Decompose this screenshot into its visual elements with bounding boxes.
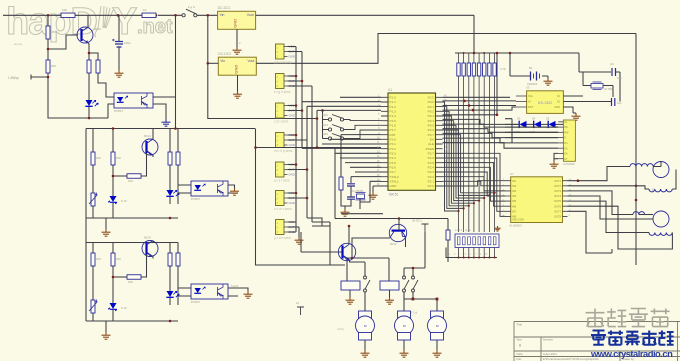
junction c xyxy=(468,104,471,107)
motor M5 xyxy=(428,311,447,340)
capacitor C4 xyxy=(612,68,616,76)
svg-text:PSEN: PSEN xyxy=(426,147,434,151)
wire bus to P3 xyxy=(302,147,381,149)
junction xyxy=(207,62,210,65)
bus conn VCC xyxy=(288,47,297,233)
IC U1 MCU 89C51 xyxy=(388,93,436,190)
wire OUT2 xyxy=(568,186,650,189)
svg-text:P3.4: P3.4 xyxy=(390,156,397,160)
rheostat Rb2 xyxy=(89,300,97,313)
svg-text:GND: GND xyxy=(233,65,238,74)
transistor Q4 xyxy=(389,224,406,241)
svg-text:9014: 9014 xyxy=(144,236,151,240)
resistor R2 xyxy=(142,13,156,17)
svg-text:q r s t sens: q r s t sens xyxy=(274,179,290,183)
resistor pack elements xyxy=(457,237,496,245)
resistor Ra4 xyxy=(127,174,141,179)
stepper M2 winding D xyxy=(649,233,672,236)
svg-text:U5: U5 xyxy=(526,86,530,90)
ground K1 xyxy=(346,297,355,304)
junction xyxy=(473,52,476,55)
svg-text:5.1V: 5.1V xyxy=(121,199,127,203)
svg-text:P1.7: P1.7 xyxy=(390,128,397,132)
svg-text:D3: D3 xyxy=(517,117,521,121)
svg-text:www.crystalradio.cn: www.crystalradio.cn xyxy=(590,348,673,359)
IC U6 LCD interface xyxy=(563,120,575,161)
junction xyxy=(88,117,91,120)
svg-text:P2.6: P2.6 xyxy=(428,156,435,160)
motor M4 xyxy=(395,311,414,340)
wire reg2 in xyxy=(208,62,219,64)
wire motor M3 xyxy=(364,340,366,350)
svg-text:IN7: IN7 xyxy=(512,209,517,213)
wires U6 gnd xyxy=(554,153,558,161)
zener Db1 xyxy=(108,303,117,311)
svg-text:k g S: k g S xyxy=(188,5,195,9)
svg-text:GND: GND xyxy=(289,55,295,59)
wire block link left xyxy=(85,218,87,243)
regulator DC-DC1 xyxy=(218,6,256,29)
switch K2 contact b xyxy=(412,276,419,292)
wire Qb xyxy=(141,241,153,278)
resistor R6 xyxy=(96,60,100,73)
wire P3 pin17 xyxy=(355,171,381,173)
svg-text:B1: B1 xyxy=(529,66,533,70)
svg-text:P0.2: P0.2 xyxy=(428,110,435,114)
svg-text:P3.0: P3.0 xyxy=(390,138,397,142)
wire GND pin xyxy=(373,186,381,192)
junction xyxy=(295,192,298,195)
title block text xyxy=(517,323,635,361)
wire OUT7 xyxy=(568,211,613,253)
wire relay feed xyxy=(347,258,389,281)
wire reg1 out xyxy=(256,14,474,16)
resistor Rb1 xyxy=(91,253,95,266)
svg-text:RS: RS xyxy=(564,126,568,129)
junction xyxy=(306,197,309,200)
svg-text:IN6: IN6 xyxy=(512,204,517,208)
junction e xyxy=(496,114,499,117)
svg-text:IN5: IN5 xyxy=(512,199,517,203)
svg-text:1.5Wsp: 1.5Wsp xyxy=(8,76,19,80)
svg-text:SW4: SW4 xyxy=(322,132,328,136)
svg-text:10p: 10p xyxy=(617,76,622,80)
svg-text:P3.1: P3.1 xyxy=(390,142,397,146)
svg-text:IN3: IN3 xyxy=(512,189,517,193)
svg-text:i j k l sens: i j k l sens xyxy=(274,120,288,124)
ground crystal xyxy=(341,209,350,216)
ground battery xyxy=(544,78,553,85)
wire caps xyxy=(341,186,351,209)
svg-text:Kout1: Kout1 xyxy=(231,284,239,288)
svg-text:P2.0: P2.0 xyxy=(428,184,435,188)
svg-text:Vin: Vin xyxy=(220,13,225,17)
resistor R8 xyxy=(446,230,450,240)
svg-text:OUT2: OUT2 xyxy=(554,184,561,188)
svg-text:GND: GND xyxy=(390,184,398,188)
power port JK-DC1 xyxy=(412,219,429,233)
svg-text:U7: U7 xyxy=(510,172,514,176)
wires U6 left xyxy=(505,119,558,149)
wire P1.3 xyxy=(317,109,381,111)
svg-text:RST: RST xyxy=(390,133,396,137)
ground K2 xyxy=(385,297,394,304)
svg-text:P1.3: P1.3 xyxy=(390,110,397,114)
svg-text:GND: GND xyxy=(233,19,238,28)
svg-text:a b c d e f g dp: a b c d e f g dp xyxy=(455,229,471,232)
junction xyxy=(169,217,172,220)
svg-text:U1: U1 xyxy=(388,88,392,92)
junction xyxy=(301,80,304,83)
wire relay K2 gnd xyxy=(389,290,391,297)
wire cap C1 xyxy=(118,15,120,70)
capacitor C3 xyxy=(347,197,355,199)
wire P1.0 xyxy=(340,96,381,98)
junction xyxy=(295,134,298,137)
junction xyxy=(316,146,319,149)
junction xyxy=(47,76,50,79)
wire long 265 xyxy=(256,264,346,266)
connector J6 xyxy=(276,191,295,206)
svg-text:DS-1302: DS-1302 xyxy=(538,101,552,105)
svg-text:PC817: PC817 xyxy=(191,300,201,304)
ground motor M4 xyxy=(400,350,409,357)
wire reg2 gnd xyxy=(237,75,239,91)
wire switch SW3 xyxy=(323,125,382,129)
svg-text:Number: Number xyxy=(543,338,553,342)
svg-text:P2.4: P2.4 xyxy=(428,166,435,170)
ground reg2 xyxy=(233,91,242,98)
junction xyxy=(47,14,50,17)
svg-text:P2.2: P2.2 xyxy=(428,175,435,179)
svg-text:P0.7: P0.7 xyxy=(428,133,435,137)
rail unswitched xyxy=(86,15,256,128)
wire motor2 feed xyxy=(404,292,414,299)
resistor Rb5 xyxy=(168,253,172,266)
bus conn sig1 xyxy=(288,52,303,149)
resistor network RP1 xyxy=(457,63,460,76)
junction xyxy=(483,52,485,54)
wire MCU to U5 d xyxy=(443,107,517,110)
svg-text:Size: Size xyxy=(517,338,523,342)
svg-text:GND: GND xyxy=(554,105,560,109)
watermark kuangshi xyxy=(591,331,674,346)
stepper M1 xyxy=(653,162,669,178)
junctions P0 columns xyxy=(457,192,495,212)
svg-text:OUT6: OUT6 xyxy=(554,204,561,208)
wires U5 right xyxy=(563,96,611,113)
diode D5 xyxy=(548,121,555,128)
connector J2 xyxy=(276,74,295,89)
connector J3 xyxy=(276,103,295,118)
stepper M2 xyxy=(653,211,669,227)
svg-text:OUT4: OUT4 xyxy=(554,194,561,198)
svg-text:GND: GND xyxy=(289,114,295,118)
connector J1 xyxy=(276,44,295,59)
watermark shuma outline xyxy=(586,309,670,327)
connector J7 xyxy=(276,220,295,235)
bus conn sig2 xyxy=(288,140,308,218)
wire mesh row6 xyxy=(443,143,513,149)
junction bus xyxy=(635,185,638,188)
junction xyxy=(169,320,172,323)
switch rail xyxy=(322,110,324,138)
svg-text:P1.5: P1.5 xyxy=(390,119,397,123)
junction xyxy=(351,257,354,260)
resistor Rb4 xyxy=(127,275,141,280)
junction sq a xyxy=(412,298,415,301)
wires P2 to U7 xyxy=(443,153,506,216)
junction xyxy=(348,225,351,228)
junction sq b xyxy=(436,298,439,301)
wire motor3 feed xyxy=(413,292,437,311)
wire reg1 gnd xyxy=(236,29,238,47)
wire Q5 base xyxy=(301,232,342,252)
wire bus down xyxy=(256,129,346,265)
svg-text:CSdj: CSdj xyxy=(337,327,344,331)
wire conn row right xyxy=(307,110,330,226)
junction xyxy=(295,75,298,78)
junction xyxy=(509,52,512,55)
relay K1 xyxy=(341,281,360,290)
wire P1.2 xyxy=(307,106,381,140)
wire blocka mid xyxy=(112,129,114,219)
IC U6 pins xyxy=(558,121,569,161)
wire power dist xyxy=(404,232,425,276)
junction OUT1 xyxy=(577,179,580,182)
ground opto U2 xyxy=(162,119,171,126)
wire mesh row3 xyxy=(443,129,559,133)
junction xyxy=(112,175,115,178)
svg-text:IN1: IN1 xyxy=(512,179,517,183)
junction xyxy=(155,14,158,17)
labels U5 pins xyxy=(528,94,561,109)
wire power line xyxy=(335,148,448,218)
junction xyxy=(463,52,465,54)
stepper M2 winding C xyxy=(633,212,645,215)
watermark hapDIY.net xyxy=(6,1,173,43)
svg-text:GND: GND xyxy=(289,173,295,177)
svg-text:hapD: hapD xyxy=(6,1,97,43)
wire Ra4 xyxy=(113,175,127,177)
connector J4 xyxy=(276,133,295,148)
wire OUT4 xyxy=(568,196,654,219)
wire MCU to U5 b2 xyxy=(0,0,1,1)
junction xyxy=(88,52,91,55)
wire blockb left xyxy=(92,243,94,322)
svg-text:GND: GND xyxy=(289,201,295,205)
regulator DC-DC2 xyxy=(218,52,256,75)
wire stepper tail xyxy=(0,0,1,1)
svg-text:P0.5: P0.5 xyxy=(428,124,435,128)
svg-text:OUT7: OUT7 xyxy=(554,209,561,213)
wire P3.1 xyxy=(322,143,381,145)
svg-text:P3.6: P3.6 xyxy=(390,166,397,170)
svg-text:9014: 9014 xyxy=(144,134,151,138)
wire xtal1 xyxy=(360,181,381,209)
svg-text:12: 12 xyxy=(296,301,300,305)
wire R8 down xyxy=(447,240,449,262)
optocoupler U4 xyxy=(191,284,228,299)
capacitor C2 xyxy=(347,184,355,186)
svg-text:X2: X2 xyxy=(557,100,561,104)
rheostat Ra2 xyxy=(89,193,97,206)
svg-text:OUT1: OUT1 xyxy=(554,179,561,183)
wire gnd row xyxy=(341,213,383,215)
wire P3 pin15 xyxy=(345,162,381,164)
svg-text:P0.4: P0.4 xyxy=(428,119,435,123)
svg-text:11.0592M: 11.0592M xyxy=(352,189,363,193)
resistor R4 xyxy=(46,60,50,73)
svg-text:20K: 20K xyxy=(51,64,56,68)
svg-text:P3.2: P3.2 xyxy=(390,147,397,151)
svg-text:PC817: PC817 xyxy=(191,197,201,201)
title block frame xyxy=(514,322,680,361)
svg-text:IO: IO xyxy=(528,100,531,104)
ground reg1 xyxy=(233,47,242,54)
wire OUT1 xyxy=(568,167,631,181)
wire motor M4 xyxy=(403,340,405,350)
resistor Ra6 xyxy=(176,152,180,165)
wire bus long xyxy=(256,119,382,148)
wire MCU to U5 c xyxy=(443,105,517,107)
bus conn sig3 xyxy=(288,86,313,222)
svg-text:P0.1: P0.1 xyxy=(428,105,435,109)
wire reg2 out xyxy=(256,34,636,64)
wire OUT6 xyxy=(568,206,673,249)
junction xyxy=(254,146,257,149)
svg-text:10K: 10K xyxy=(116,156,121,160)
svg-text:XTAL2: XTAL2 xyxy=(390,175,400,179)
junction bus xyxy=(635,199,638,202)
svg-text:C4: C4 xyxy=(610,62,614,66)
wire M1 B xyxy=(672,170,676,190)
wire P1.1 xyxy=(302,102,381,149)
ground motor M5 xyxy=(433,350,442,357)
svg-text:LCD1602: LCD1602 xyxy=(563,162,575,166)
power stub xyxy=(297,307,304,315)
wire blocka right xyxy=(170,129,178,205)
wire P3.0 xyxy=(330,138,381,140)
switch SW4 xyxy=(328,134,343,141)
junction b xyxy=(463,100,466,103)
svg-text:10p: 10p xyxy=(617,101,622,105)
resistor pack RP2 xyxy=(455,234,499,248)
wire switch SW2 xyxy=(323,120,382,121)
svg-text:Vout: Vout xyxy=(247,13,254,17)
wire Q4 emitter xyxy=(405,237,407,247)
IC U7 ULN2003 xyxy=(511,177,563,223)
svg-text:OUT5: OUT5 xyxy=(554,199,561,203)
switch K1 contact xyxy=(364,276,371,292)
svg-text:10K: 10K xyxy=(96,156,101,160)
wire 7seg bus xyxy=(446,248,497,258)
svg-text:P3.3: P3.3 xyxy=(390,152,397,156)
switch SW2 xyxy=(328,115,343,122)
svg-text:ALE: ALE xyxy=(428,142,434,146)
svg-text:32.768K: 32.768K xyxy=(604,87,614,91)
LED D1 xyxy=(85,100,98,106)
wire blockb rail xyxy=(86,243,178,322)
svg-text:DC-DC2: DC-DC2 xyxy=(218,52,231,56)
svg-text:10K: 10K xyxy=(96,257,101,261)
wire OUT3 xyxy=(568,191,634,215)
wire RST xyxy=(341,135,381,177)
svg-text:P1.1: P1.1 xyxy=(390,100,397,104)
svg-text:D4: D4 xyxy=(532,117,536,121)
svg-text:P1.4: P1.4 xyxy=(390,114,397,118)
LED Da2 xyxy=(166,190,179,196)
svg-text:P3.7: P3.7 xyxy=(390,170,397,174)
svg-text:e f g h sens: e f g h sens xyxy=(274,90,291,94)
svg-text:4.7K: 4.7K xyxy=(500,67,506,71)
svg-text:Vin: Vin xyxy=(220,59,225,63)
wires 7seg pins xyxy=(458,248,496,259)
wire Q4 collector xyxy=(352,238,390,258)
svg-text:PC817: PC817 xyxy=(114,109,124,113)
wires P0 bus xyxy=(443,102,495,211)
wire mesh row1 xyxy=(443,119,520,124)
wire Q4 base xyxy=(398,219,400,231)
stepper M1 winding A xyxy=(630,164,653,167)
wire mesh row2 xyxy=(443,124,559,127)
battery B1 xyxy=(531,72,540,81)
svg-text:P1.6: P1.6 xyxy=(390,124,397,128)
svg-text:9013: 9013 xyxy=(94,27,101,31)
junction xyxy=(412,267,415,270)
wire blockb bottom xyxy=(86,321,178,332)
capacitor C5 xyxy=(612,98,615,106)
resistor network columns xyxy=(459,53,495,232)
svg-text:P1.0: P1.0 xyxy=(390,96,397,100)
svg-text:P2.5: P2.5 xyxy=(428,161,435,165)
wire switch to reg1 xyxy=(197,14,218,16)
LED Db2 xyxy=(166,291,179,297)
svg-text:4-Apr-2011: 4-Apr-2011 xyxy=(543,352,557,356)
wire OUT5 xyxy=(568,201,650,232)
junction xyxy=(112,127,115,130)
relay K2 xyxy=(380,281,399,290)
wire U5 gnd link xyxy=(573,112,576,114)
svg-text:Y: Y xyxy=(112,1,137,43)
svg-text:a b c d sens: a b c d sens xyxy=(274,61,292,65)
svg-text:XTAL1: XTAL1 xyxy=(390,180,400,184)
junction xyxy=(295,163,298,166)
svg-text:P2.1: P2.1 xyxy=(428,180,435,184)
wires U5 left pins xyxy=(516,96,527,107)
svg-text:P0.6: P0.6 xyxy=(428,128,435,132)
svg-text:Title: Title xyxy=(517,323,523,327)
junction xyxy=(117,14,120,17)
labels diodes xyxy=(514,117,550,135)
ground U1 xyxy=(369,192,378,199)
wire base divider xyxy=(48,15,108,118)
rail switched xyxy=(208,15,317,118)
wire blocka rail xyxy=(86,129,178,219)
IC U7 pins xyxy=(503,179,572,219)
diode D3 xyxy=(519,121,526,128)
wire top rail xyxy=(3,14,183,16)
ground opto U3 xyxy=(230,188,239,195)
svg-text:m n o p sens: m n o p sens xyxy=(274,149,293,153)
wire MCU to U5 b xyxy=(443,100,517,102)
resistor Ra1 xyxy=(91,152,95,165)
wire M1 A xyxy=(653,162,661,167)
switch K2 contact a xyxy=(403,276,410,292)
svg-text:Date:: Date: xyxy=(517,352,524,356)
wire diode row xyxy=(505,122,563,125)
wire blockb mid xyxy=(112,243,114,322)
